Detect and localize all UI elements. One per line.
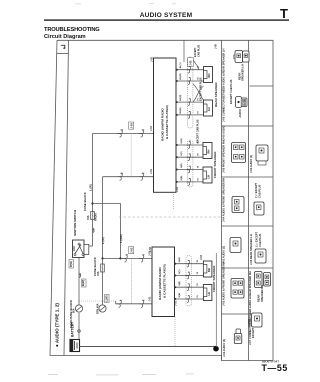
svg-text:J-03: J-03 [129,247,133,253]
connector label J-03 lower boxed [129,247,134,254]
cell L6 connector view [234,329,242,344]
svg-text:G(Y): G(Y) [181,151,183,156]
connector strip J-04 front [187,140,193,187]
svg-text:J-01: J-01 [149,251,152,256]
diagram outer frame [50,40,273,360]
svg-text:L (W): L (W) [101,237,105,244]
fuse 15A BTN on wire [97,264,104,276]
svg-text:FUSE BLOCK: FUSE BLOCK [93,256,97,276]
svg-text:J-02: J-02 [151,57,154,62]
connector hooks on speaker wires lower [186,260,190,267]
cell R6 audio connector view [252,313,263,327]
svg-text:LH: LH [207,292,211,296]
svg-text:EXCEPT CAB PLUS: EXCEPT CAB PLUS [229,79,233,104]
svg-text:L (W): L (W) [89,184,93,191]
svg-text:REAR SPEAKER: REAR SPEAKER [214,82,218,107]
svg-text:& CASSETTE PLAYER): & CASSETTE PLAYER) [163,264,167,298]
cell L3 connector view [232,197,244,213]
front speaker LH lower [203,285,212,301]
svg-text:BL(R): BL(R) [180,94,182,100]
scan specks [48,3,194,375]
svg-text:RH: RH [207,268,211,272]
type separator dashed line [119,216,222,218]
svg-text:LH: LH [207,175,211,179]
left strip corner symbol [61,45,65,49]
svg-text:MAIN FUSE BLOCK: MAIN FUSE BLOCK [69,299,73,328]
main fuse MAIN 80A [73,305,83,313]
cell R3 connector view [256,145,268,165]
cell L5 connector view [231,279,244,299]
svg-text:● AUDIO (TYPE 1, 2): ● AUDIO (TYPE 1, 2) [55,303,60,347]
fuse BTN wire up [102,177,104,305]
junction dots front upper [176,144,178,183]
svg-text:G(R): G(R) [179,281,181,286]
wire ignition to fuse block ACC [89,220,93,246]
svg-text:RH: RH [207,150,211,154]
svg-text:J-05 FRONT SPEAKER RH/J-05 AUD: J-05 FRONT SPEAKER RH/J-05 AUDIO [221,126,225,173]
wire label L (W) boxed [105,295,110,303]
svg-text:J-01: J-01 [150,126,153,131]
svg-text:( ) : EXCEPT: ( ) : EXCEPT [254,182,258,198]
svg-text:15A: 15A [87,215,90,220]
connector label J-03 boxed [129,122,134,129]
rear speaker wires from radio [176,70,204,115]
svg-text:L(W): L(W) [105,295,109,301]
junction dot on BTN wire [101,257,103,259]
svg-text:J-02 AUDIO (1): J-02 AUDIO (1) [221,246,225,264]
upper feed wire ACC [93,133,154,135]
connector table column lines [222,40,274,360]
svg-text:J-01: J-01 [149,296,152,301]
svg-text:LH: LH [207,107,211,111]
svg-text:CAB PLUS: CAB PLUS [258,184,262,198]
svg-text:BL(W): BL(W) [180,73,182,80]
junction of L(WR) drop [119,257,121,259]
connector table row dividers [250,85,274,87]
svg-text:( ) : EXCEPT: ( ) : EXCEPT [255,231,259,247]
svg-text:L (WR): L (WR) [119,234,123,243]
connector pair on upper ACC wire [118,130,124,137]
cell R6 rear speaker RH connector view [255,272,263,288]
connector boundary dotted lower [130,258,132,303]
front speaker RH lower [203,261,212,277]
svg-text:FRONT SPEAKER: FRONT SPEAKER [212,265,216,292]
svg-text:J-02 AUDIO (2): J-02 AUDIO (2) [222,339,226,357]
connector pairs on lower wire 2 [117,300,123,307]
svg-text:G(Y): G(Y) [179,269,181,274]
wire label B (W) [81,279,86,287]
svg-text:G(R): G(R) [181,163,183,168]
battery feed wire up [78,313,80,340]
svg-text:J-03 AUDIO & FRONT SPEAKER RH: J-03 AUDIO & FRONT SPEAKER RH [221,262,225,306]
rear speaker RH [204,67,213,83]
battery B1 [70,340,80,352]
branch wire to L(WR) drop [93,204,121,259]
connector on battery wire [79,273,81,278]
svg-text:J-03: J-03 [129,123,133,129]
svg-text:CAB PLUS: CAB PLUS [258,233,262,247]
svg-text:EXCEPT CAB PLUS: EXCEPT CAB PLUS [200,77,203,101]
svg-text:T—55: T—55 [262,363,288,373]
svg-text:J-06 REAR SPEAKER LH: J-06 REAR SPEAKER LH [249,234,253,265]
ground junction dot [213,346,219,352]
svg-text:T: T [280,6,288,21]
wire battery to ignition switch [78,258,80,305]
svg-text:Circuit Diagram: Circuit Diagram [44,34,86,40]
svg-text:J-01: J-01 [175,301,178,306]
connector boundary dotted upper [130,134,132,177]
svg-text:J-01: J-01 [150,169,153,174]
svg-text:FUSE BLOCK: FUSE BLOCK [83,191,87,211]
svg-text:RADIO (AM/FM RADIO: RADIO (AM/FM RADIO [158,267,162,300]
junction dots at radio right edge [176,69,178,116]
svg-text:B(W): B(W) [81,280,85,286]
svg-text:G(W): G(W) [179,257,181,262]
junction dots lower [174,263,176,300]
svg-text:J-04 AUDIO & FRONT SPEAKER RH: J-04 AUDIO & FRONT SPEAKER RH [221,178,225,222]
connector on ACC wire [93,228,95,233]
wire fuse up and branch junction [92,134,94,212]
dotted stub below radio U1 [172,194,174,210]
svg-text:BL(B): BL(B) [180,107,182,113]
connector strip lower [186,256,192,307]
front speaker wires lower [175,264,204,299]
svg-text:G(B): G(B) [181,175,183,180]
svg-text:EXCEPT CAB PLUS: EXCEPT CAB PLUS [197,119,200,143]
left index strip inner line [64,40,69,355]
radio U2 (type 2) [152,247,175,317]
ground riser wire [215,253,217,347]
rear speaker LH [204,100,213,116]
cell L4 connector view [230,238,241,253]
cell L2 connector view [232,143,246,163]
cell R5 connector view [255,249,266,263]
front speaker wires upper [176,145,203,182]
svg-text:& CASSETTE PLAYER): & CASSETTE PLAYER) [165,105,169,139]
crossover wires except cab plus [193,84,204,102]
svg-text:SPEAKER LH: SPEAKER LH [241,64,245,81]
svg-text:ACC: ACC [73,246,76,251]
svg-text:AUDIO: AUDIO [238,109,242,117]
svg-text:CAB PLUS: CAB PLUS [198,44,201,57]
svg-text:BTN 40A: BTN 40A [97,303,100,314]
svg-text:J-01: J-01 [176,187,179,192]
svg-text:J-02 AUDIO (1): J-02 AUDIO (1) [249,155,253,173]
lower feed wire 1 [103,257,153,259]
svg-text:RH: RH [207,74,211,78]
svg-text:AUDIO SYSTEM: AUDIO SYSTEM [140,12,193,19]
cell L1 rear speaker LH connector view [234,51,249,63]
wire label boxed below switch [69,260,74,269]
svg-text:SPEAKER RH: SPEAKER RH [260,285,264,302]
svg-text:BL(Y): BL(Y) [180,62,182,68]
lower feed wire 2 [116,301,152,304]
ground bus wire [80,346,217,348]
bypass connector label [188,58,194,67]
svg-text:J-05: J-05 [190,60,193,65]
left strip corner box [57,53,69,55]
svg-text:15A: 15A [97,271,100,276]
svg-text:AUDIO: AUDIO [247,319,251,327]
svg-text:RADIO (AM/FM RADIO: RADIO (AM/FM RADIO [161,108,165,141]
svg-text:G(W): G(W) [181,138,183,143]
connector strip J-05 rear [187,57,193,128]
cell R4 connector view [254,202,264,215]
battery wire connector [78,330,81,333]
cell L1 audio connector view [236,97,248,108]
connector hooks on speaker wires upper [187,66,191,73]
svg-text:FRONT SPEAKER: FRONT SPEAKER [213,151,217,178]
svg-text:B(W): B(W) [70,261,73,267]
svg-text:J-02: J-02 [149,247,152,252]
svg-text:IGNITION SWITCH: IGNITION SWITCH [73,210,77,236]
svg-text:REAR: REAR [257,295,261,302]
svg-text:J-05: J-05 [215,44,218,49]
front speaker LH upper [203,167,212,183]
radio U1 (type 1) [154,58,177,192]
ignition switch SW1 [73,240,89,258]
upper feed wire BTN [103,176,154,178]
fuse BTN 40A [97,303,107,314]
svg-text:G(B): G(B) [179,293,181,298]
bypass wires to top [184,40,199,69]
connector pairs on lower wire 1 [123,255,129,262]
svg-text:J-05 CONNECTOR BETWEEN AUDIO &: J-05 CONNECTOR BETWEEN AUDIO & REAR SPEA… [221,49,225,122]
connector pair on upper BTN wire [118,173,124,180]
header rule [44,19,289,20]
dotted ground stub lower radio [174,317,176,347]
fuse RADIO 15A [87,212,98,222]
svg-text:TROUBLESHOOTING: TROUBLESHOOTING [44,27,100,33]
svg-text:J-04: J-04 [200,254,203,260]
svg-text:RADIO: RADIO [95,213,98,221]
dotted tie line between fuses [79,300,116,302]
front speaker RH upper [203,143,212,159]
